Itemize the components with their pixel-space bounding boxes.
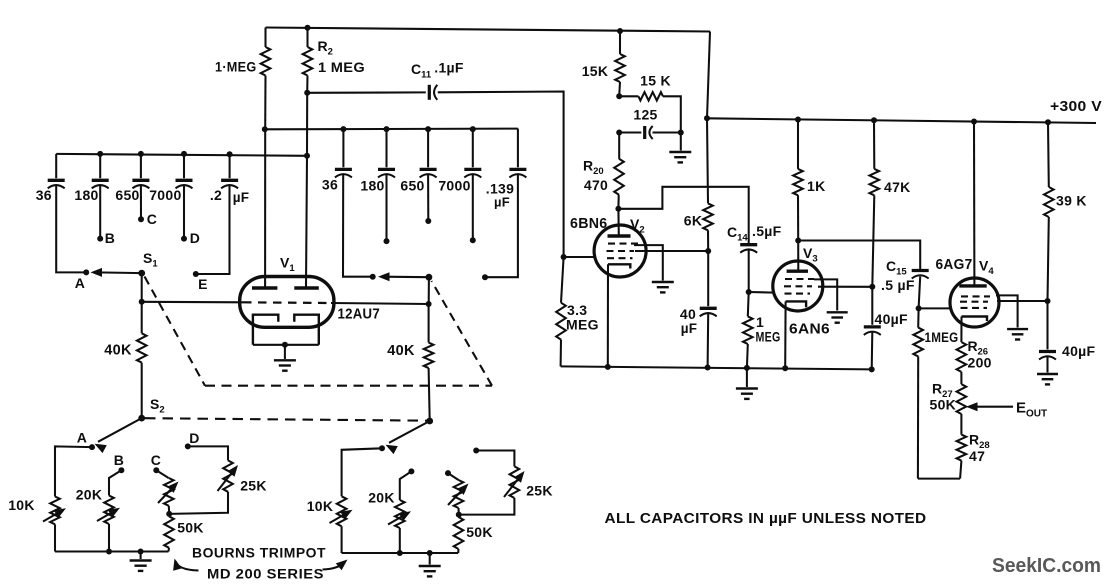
wire V4 screen to ground (996, 295, 1018, 327)
V3 grid dashes row3 (785, 293, 811, 295)
junction dot top of 15K (617, 28, 623, 34)
junction dot right bus (470, 126, 476, 132)
svg-text:.5 µF: .5 µF (881, 277, 915, 293)
wire S1 to grid junction (141, 273, 143, 302)
svg-text:180: 180 (360, 178, 384, 194)
terminal dot C (right pots) (445, 470, 451, 476)
resistor 6K (707, 118, 708, 203)
junction dot left bus (227, 151, 233, 157)
junction dot 15K bottom (616, 93, 622, 99)
wire right switch to grid junction (428, 277, 430, 304)
resistor 50K lower (right) (457, 515, 459, 517)
svg-text:R: R (968, 338, 978, 354)
svg-text:µF: µF (681, 321, 698, 336)
junction dot left bus (97, 151, 103, 157)
svg-text:D: D (190, 230, 200, 246)
junction dot left bus (138, 151, 144, 157)
V4 grid dashes row1 (961, 295, 990, 297)
resistor 39K (1047, 122, 1050, 187)
terminal dot B (pots) (118, 467, 124, 473)
dashed gang link S2 horizontal (145, 418, 430, 421)
wire .2 cap to terminal E (196, 186, 230, 274)
ground (right pots) (419, 565, 441, 567)
junction dot top of R2 (305, 25, 311, 31)
svg-text:+300 V: +300 V (1050, 99, 1102, 115)
junction dot V2 grid1 (561, 254, 567, 260)
svg-text:40K: 40K (104, 343, 132, 359)
terminal dot C (pots) (153, 467, 159, 473)
capacitor 40uF (V3) (871, 287, 873, 325)
junction dot left bus (181, 151, 187, 157)
wire C15 to V4 grid node (919, 277, 921, 309)
resistor 47K (873, 120, 875, 169)
svg-text:6BN6: 6BN6 (570, 216, 608, 232)
junction dot right pot ground (427, 550, 433, 556)
dashed gang link horizontal (205, 385, 492, 387)
tube V1 12AU7 envelope (240, 277, 334, 328)
terminal dot B (97, 236, 103, 242)
switch S2 contact dot A (89, 444, 95, 450)
svg-text:1·MEG: 1·MEG (215, 59, 257, 75)
potentiometer 10K (right) (337, 496, 347, 526)
wire 180 right cap to terminal (385, 175, 387, 241)
terminal dot (7000 right) (470, 237, 476, 243)
terminal dot (right E contact) (482, 274, 488, 280)
tube V4 envelope (950, 278, 999, 327)
wire left capacitor bus (56, 154, 307, 156)
terminal dot (180 right) (384, 238, 390, 244)
junction dot 47K bottom (869, 284, 875, 290)
junction dot V1 right grid (426, 301, 432, 307)
wire 650 right cap to terminal (427, 175, 429, 221)
wire V4 grid2 to 39K node (997, 300, 1048, 302)
V4 grid dashes row2 (960, 301, 988, 303)
junction dot right bus (425, 126, 431, 132)
junction dot right bus at 1MEG line (262, 126, 268, 132)
svg-text:MEG: MEG (566, 317, 599, 333)
V2 cathode (608, 264, 630, 268)
switch contact dot A (83, 269, 89, 275)
wire 1K node to C15 (798, 241, 920, 270)
junction dot bus/V2 cathode (605, 364, 611, 370)
svg-text:180: 180 (74, 187, 98, 203)
terminal dot E (193, 271, 199, 277)
resistor 3.3 MEG (561, 257, 564, 303)
svg-text:1: 1 (756, 314, 764, 330)
junction dot right bus (340, 126, 346, 132)
svg-text:µF: µF (233, 190, 250, 205)
V1 grid dashed line (243, 301, 331, 304)
svg-text:25K: 25K (240, 478, 267, 494)
wire V3 plate lead (797, 241, 799, 273)
svg-text:E: E (198, 276, 208, 292)
resistor 1K (797, 120, 799, 169)
svg-text:A: A (77, 430, 87, 446)
junction dot +300V rail (704, 115, 710, 121)
svg-text:47: 47 (969, 448, 985, 464)
wire V2 screen to ground (634, 245, 663, 280)
svg-text:12AU7: 12AU7 (338, 307, 381, 323)
wire right contact to 10K (342, 448, 382, 496)
potentiometer R27 50K (960, 372, 962, 384)
potentiometer 50K upper (right) (448, 473, 459, 480)
wire right pot bus (342, 552, 459, 554)
capacitor .139 uF (right bank) (517, 129, 519, 168)
wire 7000 right cap to terminal (472, 175, 474, 240)
resistor 1 MEG (left) (264, 28, 266, 48)
V2 grid dashes row2 (607, 250, 635, 252)
svg-text:650: 650 (400, 178, 424, 194)
svg-text:50K: 50K (177, 520, 204, 536)
capacitor 650 (right bank) (427, 129, 429, 167)
junction dot right bus (384, 126, 390, 132)
svg-text:C: C (147, 211, 157, 227)
junction dot 125 left (616, 130, 622, 136)
resistor 50K lower (left) (168, 514, 170, 516)
capacitor 40uF (output) (1046, 301, 1048, 349)
svg-text:6AG7: 6AG7 (936, 257, 973, 273)
junction dot V3 grid (746, 289, 752, 295)
terminal dot (650 right) (425, 218, 431, 224)
terminal dot C (138, 216, 144, 222)
svg-text:.1µF: .1µF (434, 60, 464, 76)
svg-text:650: 650 (115, 187, 139, 203)
junction dot 20K bottom (106, 549, 112, 555)
V2 grid dashes row1 (608, 243, 640, 245)
wire A contact to 10K (55, 446, 92, 496)
svg-text:36: 36 (322, 177, 338, 193)
capacitor C11 .1uF (307, 91, 426, 93)
wire bus to ground (746, 368, 748, 387)
wire V3 cathode to bottom bus (784, 301, 786, 368)
ground (V3 screen) (827, 311, 848, 313)
wire 40uF to bus (871, 333, 874, 370)
svg-text:470: 470 (584, 177, 608, 193)
resistor R20 470 (618, 133, 620, 159)
svg-text:D: D (189, 430, 199, 446)
junction dot V4 grid (916, 305, 922, 311)
svg-text:47K: 47K (884, 179, 911, 195)
wiper arrow R27 / E out line (966, 402, 978, 411)
junction dot bus/40uF-47K (869, 366, 875, 372)
junction dot +300V rail (795, 117, 801, 123)
junction dot 6K bottom (705, 248, 711, 254)
wire 36 right cap to switch contact (343, 175, 373, 277)
ground (V4 screen) (1007, 328, 1028, 330)
svg-text:BOURNS TRIMPOT: BOURNS TRIMPOT (192, 546, 326, 561)
junction dot R2/C11 (304, 90, 310, 96)
capacitor 36 (right bank) (342, 129, 344, 167)
wire 40uF to bottom bus (707, 314, 710, 368)
junction dot +300V rail (971, 119, 977, 125)
wire R2 to V1 right plate (306, 93, 307, 287)
svg-text:40µF: 40µF (875, 311, 909, 327)
tube V2 envelope (594, 225, 646, 277)
wire V3 plate2 to 47K node (818, 286, 872, 288)
wire R20 node to C14 (618, 187, 748, 244)
V3 grid dashes row1 (785, 278, 814, 280)
right switch wiper arm (384, 276, 429, 279)
wire V3 grid (749, 291, 775, 294)
dashed gang link right diagonal (432, 281, 493, 386)
junction dot bus/40uF (705, 365, 711, 371)
capacitor C14 .5uF (740, 243, 757, 246)
wire V2 cathode to bottom bus (607, 264, 609, 367)
capacitor 180 (right bank) (385, 129, 387, 167)
junction dot 1K bottom (795, 238, 801, 244)
svg-text:15 K: 15 K (640, 73, 671, 89)
wire V2 plate lead (617, 209, 619, 236)
junction dot R2/left bus (304, 153, 310, 159)
svg-text:6K: 6K (684, 213, 703, 229)
resistor 40K (left) (141, 302, 143, 334)
junction dot 20K bottom (right) (397, 550, 403, 556)
wire V1 left grid (142, 301, 243, 304)
wire right capacitor bus (265, 128, 518, 131)
svg-text:A: A (75, 275, 85, 291)
junction dot 50K/25K (left) (166, 511, 172, 517)
wire C14 to V3 grid node (748, 251, 750, 293)
junction dot 39K bottom (1045, 298, 1051, 304)
wire bottom ground bus (561, 366, 872, 369)
right S2 wiper arm (389, 421, 430, 443)
callout arrow to right pots (323, 562, 346, 570)
resistor 40K (right) (428, 304, 430, 343)
dashed gang link S1 diagonal (145, 277, 206, 386)
wire to ground (left pots) (140, 552, 142, 560)
potentiometer 25K (right) (476, 451, 514, 467)
switch S2 wiper arm (98, 418, 142, 442)
tube V3 envelope (773, 261, 823, 311)
ground (bottom bus) (736, 387, 758, 389)
right S2 common dot (426, 418, 433, 425)
capacitor 125 (619, 131, 641, 133)
wire left plate lead of V1 (264, 129, 266, 287)
switch S1 wiper arm (96, 271, 142, 274)
resistor R26 200 (960, 317, 962, 343)
svg-text:15K: 15K (582, 63, 609, 79)
junction dot 125 right (678, 130, 684, 136)
svg-text:C: C (151, 452, 161, 468)
svg-text:SeekIC.com: SeekIC.com (992, 554, 1101, 577)
svg-text:40µF: 40µF (1062, 343, 1096, 359)
resistor 15K (horizontal) (619, 95, 638, 97)
capacitor .2 uF (left bank) (229, 154, 231, 178)
V1 right plate (294, 286, 319, 290)
wire C11 to V2 grid (438, 92, 564, 258)
svg-text:.2: .2 (210, 187, 222, 203)
capacitor 36 (left bank) (55, 154, 57, 178)
V4 grid dashes row3 (961, 307, 988, 309)
callout arrow to left 50K (176, 561, 199, 571)
svg-text:125: 125 (633, 107, 657, 123)
junction dot +300V rail (1045, 119, 1051, 125)
V4 cathode (962, 317, 988, 322)
svg-text:36: 36 (36, 187, 52, 203)
svg-text:1K: 1K (807, 178, 826, 194)
potentiometer 20K (left) (109, 470, 121, 495)
resistor R2 1 MEG (306, 28, 308, 47)
ground (V2 screen) (652, 281, 674, 283)
svg-text:MD 200 SERIES: MD 200 SERIES (207, 567, 324, 582)
V1 right cathode (294, 315, 319, 345)
V4 plate (959, 284, 986, 287)
svg-text:7000: 7000 (149, 187, 181, 203)
svg-text:B: B (105, 230, 115, 246)
wire feedback bottom (918, 478, 960, 480)
V3 grid dashes row2 (784, 285, 812, 287)
potentiometer 50K upper (left) (156, 470, 168, 478)
V1 left cathode (253, 315, 278, 345)
wire V2 grid3 to 6K node (635, 250, 708, 252)
svg-text:25K: 25K (526, 483, 553, 499)
junction dot +300V rail (871, 117, 877, 123)
junction dot R20 bottom (615, 206, 621, 212)
resistor 15K (vertical) (619, 31, 621, 54)
svg-text:50K: 50K (466, 524, 493, 540)
switch S2 common dot (138, 415, 145, 422)
svg-text:MEG: MEG (756, 330, 781, 345)
wire to ground (right pots) (429, 553, 431, 565)
resistor 1 MEG (V3 grid) (747, 292, 750, 316)
V2 plate (608, 234, 631, 237)
wire +300V rail (707, 118, 1096, 123)
svg-text:1 MEG: 1 MEG (318, 59, 365, 75)
svg-text:10K: 10K (8, 497, 35, 513)
capacitor 650 (left bank) (140, 154, 142, 178)
wire left pot bus (55, 550, 169, 552)
potentiometer 10K (left) (50, 497, 60, 525)
svg-text:B: B (114, 452, 124, 468)
resistor 1MEG (V4 grid) (917, 308, 919, 327)
svg-text:200: 200 (968, 355, 992, 371)
junction dot bus/V3 cathode (782, 365, 788, 371)
V3 plate (787, 270, 808, 273)
svg-text:50K: 50K (930, 397, 957, 413)
wire top rail corner down (707, 32, 710, 119)
right S2 contact dot (379, 445, 385, 451)
wire V1 cathode to ground (284, 345, 286, 359)
svg-text:10K: 10K (307, 498, 334, 514)
wire top rail (266, 28, 711, 32)
svg-text:20K: 20K (368, 490, 395, 506)
resistor R28 47 (960, 414, 962, 435)
svg-text:.5µF: .5µF (752, 223, 782, 239)
wire .139 cap to right E contact (485, 175, 518, 277)
potentiometer 20K (right) (400, 471, 412, 500)
switch contact dot (right bank) (370, 274, 376, 280)
svg-text:40: 40 (680, 306, 696, 322)
wire V4 grid (919, 307, 951, 309)
terminal dot D (pots) (185, 443, 191, 449)
capacitor 180 (left bank) (99, 154, 101, 178)
svg-text:6AN6: 6AN6 (789, 322, 830, 338)
ground (left pots) (130, 559, 152, 561)
wire 650 cap to terminal C (140, 186, 142, 219)
junction dot bus/1MEG-ground (744, 365, 750, 371)
terminal dot D (181, 236, 187, 242)
wire 180 cap to terminal B (99, 186, 101, 239)
ground (V1 cathode) (274, 359, 296, 361)
svg-text:20K: 20K (76, 487, 103, 503)
potentiometer 25K (left) (188, 446, 228, 460)
wire V1 cathode bottom (253, 344, 319, 346)
junction dot V1 left grid (139, 299, 145, 305)
V1 left plate (252, 286, 277, 290)
terminal dot B (right pots) (408, 468, 414, 474)
wire V1 right grid (331, 303, 429, 304)
svg-text:39 K: 39 K (1056, 193, 1087, 209)
wire V2 grid1 (left) (564, 256, 595, 258)
V2 grid dashes row3 (607, 257, 633, 259)
wire 40uF to ground (1046, 357, 1048, 373)
wire 36 cap to switch contact A (56, 186, 86, 272)
svg-text:7000: 7000 (438, 178, 470, 194)
ground (125 cap) (669, 151, 691, 153)
wire V4 plate lead (973, 122, 975, 288)
wire 7000 cap to terminal D (183, 186, 185, 239)
svg-text:µF: µF (494, 195, 510, 210)
right switch common dot (426, 274, 433, 281)
capacitor 40 uF (V2) (707, 251, 709, 306)
switch S1 common dot (138, 270, 145, 277)
ground (output 40uF) (1037, 373, 1058, 375)
svg-text:40K: 40K (387, 343, 415, 359)
terminal dot D (right pots) (473, 448, 479, 454)
svg-text:ALL CAPACITORS IN µµF UNLES: ALL CAPACITORS IN µµF UNLESS NOTED (605, 511, 927, 527)
capacitor 7000 (left bank) (183, 154, 185, 178)
capacitor 7000 (right bank) (472, 129, 474, 167)
capacitor C15 .5 uF (912, 269, 929, 272)
junction dot V1 cathode (282, 342, 288, 348)
wire V3 screen to ground (814, 279, 837, 310)
V3 cathode (786, 301, 807, 307)
wire 125 to ground (680, 133, 682, 151)
svg-text:1MEG: 1MEG (925, 330, 959, 345)
junction dot 50K/25K (right) (456, 512, 462, 518)
junction dot left pot ground (138, 549, 144, 555)
